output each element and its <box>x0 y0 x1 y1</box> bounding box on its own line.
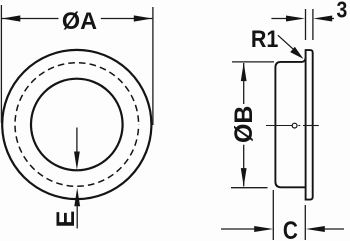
dimension line OA <box>2 18 59 20</box>
OB extension line top <box>232 61 274 63</box>
extension line left of OA <box>0 5 2 123</box>
arrowhead OA right <box>134 15 153 21</box>
svg-text:R1: R1 <box>251 26 279 53</box>
arrow E up (from below) <box>76 205 78 229</box>
C extension line right <box>304 205 306 240</box>
inner circle (cup opening OB) <box>31 79 123 171</box>
leader R1 <box>278 35 296 51</box>
arrowhead OA left <box>2 15 21 21</box>
extension line right of OA <box>152 7 154 125</box>
3 extension line left <box>305 9 307 40</box>
center mark circle <box>292 123 297 128</box>
C extension line left <box>272 190 274 240</box>
arrowhead OB up <box>241 63 247 82</box>
C dimension arrows <box>221 228 258 230</box>
svg-text:ØB: ØB <box>230 106 258 144</box>
OB dimension line <box>243 63 245 104</box>
side view: cup profile <box>275 58 305 187</box>
svg-text:ØA: ØA <box>62 8 97 35</box>
arrowhead OB down <box>241 168 247 187</box>
side view: flange <box>306 50 313 200</box>
svg-text:E: E <box>52 211 80 228</box>
3 extension line right <box>312 9 314 40</box>
outer circle (front view, flange rim OA) <box>2 50 151 199</box>
arrow E down (inside cup) <box>76 128 78 156</box>
center line (axis) <box>266 125 292 127</box>
OB extension line bottom <box>231 187 268 189</box>
3 dimension arrows <box>271 18 290 20</box>
svg-text:3: 3 <box>337 0 348 22</box>
svg-text:C: C <box>283 217 298 241</box>
dashed circle (drill hole) <box>15 63 139 187</box>
